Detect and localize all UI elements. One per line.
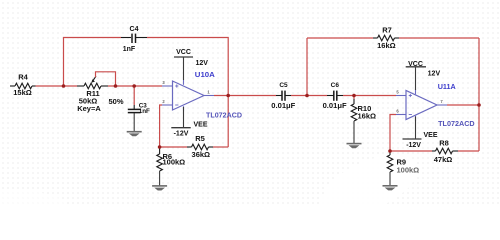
- svg-text:100kΩ: 100kΩ: [397, 165, 420, 174]
- wire: input line R4 to R11: [36, 85, 78, 87]
- svg-text:100kΩ: 100kΩ: [163, 158, 186, 167]
- potentiometer R11 50% (Key=A): [77, 76, 124, 113]
- wire: node up to R7 feedback line: [306, 38, 308, 96]
- wire: node to C3 top: [133, 86, 135, 105]
- svg-text:36kΩ: 36kΩ: [192, 150, 211, 159]
- svg-text:C4: C4: [130, 26, 139, 33]
- wire: R11 to U10A non-inverting input: [108, 85, 162, 87]
- op-amp U11A TL072ACD: [396, 82, 475, 128]
- wire: C6 to U11A non-inverting input: [343, 95, 396, 97]
- svg-text:-12V: -12V: [174, 130, 189, 137]
- wire: U10A inverting input branch: [160, 105, 162, 147]
- VEE symbol (U10A) -12V: [171, 107, 208, 137]
- svg-text:VEE: VEE: [194, 122, 208, 129]
- junction (159.6,147): [158, 145, 162, 149]
- junction (479,105): [477, 103, 481, 107]
- svg-text:VCC: VCC: [408, 61, 423, 68]
- capacitor C6 0.01uF: [323, 82, 348, 110]
- svg-text:C5: C5: [279, 82, 288, 89]
- junction (228.2,95.5): [226, 94, 230, 98]
- capacitor C3 1nF: [128, 102, 150, 114]
- svg-text:16kΩ: 16kΩ: [377, 41, 396, 50]
- junction (115.5,86): [114, 84, 118, 88]
- svg-text:R7: R7: [382, 25, 392, 34]
- VEE symbol (U11A) -12V: [403, 117, 438, 150]
- wire: R7 feedback top line: [307, 37, 479, 39]
- wire: right feedback vertical: [478, 38, 480, 151]
- wire: node to R10: [353, 96, 355, 100]
- resistor R6 100kOhm: [157, 147, 185, 186]
- svg-text:-12V: -12V: [406, 142, 421, 149]
- wire: U11A inverting input branch: [390, 115, 396, 152]
- wire: bottom feedback line stage 2: [390, 150, 479, 152]
- junction (134.2,86): [132, 84, 136, 88]
- wire: U11A output: [447, 104, 479, 106]
- wire: U10A output to C5: [214, 95, 276, 97]
- svg-text:1nF: 1nF: [123, 46, 136, 53]
- ground (R9): [383, 186, 398, 191]
- svg-text:R4: R4: [18, 73, 28, 82]
- svg-text:C6: C6: [331, 82, 340, 89]
- capacitor C4 1nF: [121, 26, 147, 53]
- resistor R7 16kOhm: [373, 25, 399, 50]
- VCC symbol (U10A) 12V: [174, 49, 208, 80]
- svg-text:50%: 50%: [108, 97, 123, 106]
- ground (R6): [152, 186, 167, 191]
- svg-text:12V: 12V: [195, 60, 208, 67]
- ground (C3): [127, 113, 142, 136]
- svg-text:TL072ACD: TL072ACD: [206, 111, 243, 120]
- svg-text:47kΩ: 47kΩ: [434, 155, 453, 164]
- capacitor C5 0.01uF: [271, 82, 296, 110]
- svg-text:16kΩ: 16kΩ: [358, 112, 377, 121]
- resistor R5 36kOhm: [187, 134, 213, 159]
- svg-text:VEE: VEE: [424, 132, 438, 139]
- resistor R8 47kOhm: [432, 138, 458, 164]
- svg-text:Key=A: Key=A: [77, 104, 101, 113]
- VCC symbol (U11A) 12V: [406, 61, 441, 90]
- svg-text:U11A: U11A: [438, 82, 457, 91]
- svg-text:15kΩ: 15kΩ: [13, 88, 32, 97]
- junction (307,95.5): [305, 94, 309, 98]
- svg-text:12V: 12V: [428, 71, 441, 78]
- resistor R4: [10, 73, 36, 97]
- junction (390,151): [388, 149, 392, 153]
- svg-text:1nF: 1nF: [139, 108, 150, 115]
- svg-text:VCC: VCC: [176, 49, 191, 56]
- resistor R10 16kOhm: [351, 99, 376, 143]
- junction (354,95.5): [352, 94, 356, 98]
- junction (63.5,86): [62, 84, 66, 88]
- wire: R11 wiper to node: [96, 72, 116, 86]
- ground (R10): [347, 144, 362, 149]
- svg-text:U10A: U10A: [195, 70, 216, 79]
- svg-text:R5: R5: [195, 134, 205, 143]
- svg-text:TL072ACD: TL072ACD: [438, 119, 475, 128]
- svg-text:0.01μF: 0.01μF: [323, 103, 348, 110]
- wire: node A up to C4 branch and across to output node: [64, 38, 229, 148]
- op-amp U10A TL072ACD: [162, 70, 243, 120]
- wire: C5 to C6: [291, 95, 327, 97]
- resistor R9 100kOhm: [387, 151, 419, 186]
- svg-text:0.01μF: 0.01μF: [271, 103, 296, 110]
- wire: bottom feedback line stage 1: [160, 146, 229, 148]
- svg-text:R8: R8: [439, 138, 449, 147]
